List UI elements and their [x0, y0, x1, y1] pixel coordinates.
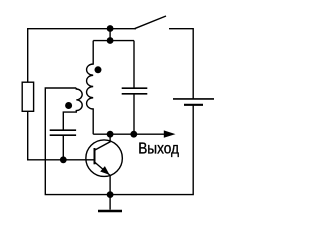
svg-text:Выход: Выход	[138, 140, 179, 157]
